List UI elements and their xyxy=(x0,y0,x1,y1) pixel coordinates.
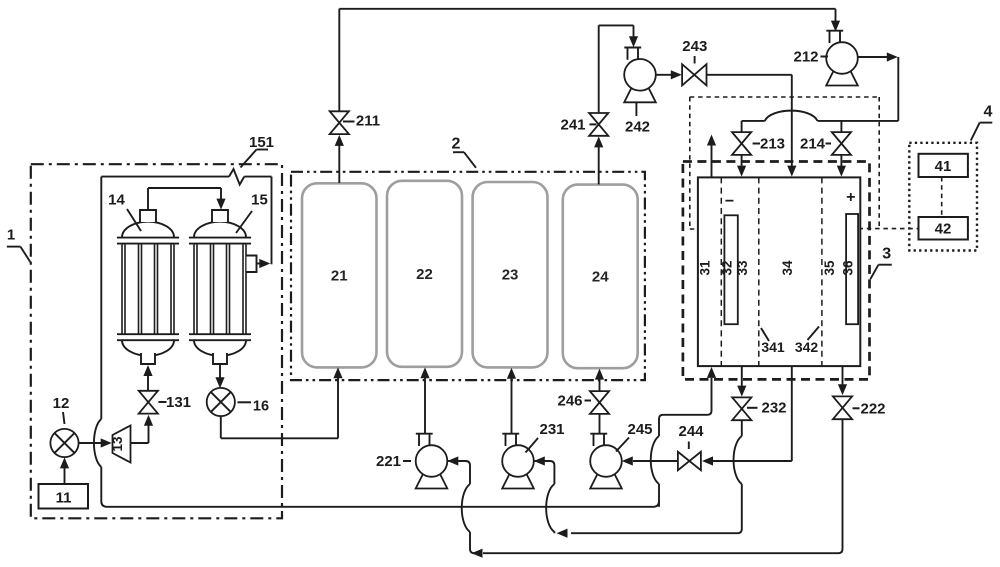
svg-text:−: − xyxy=(725,193,734,210)
svg-text:244: 244 xyxy=(678,423,704,440)
svg-text:42: 42 xyxy=(935,221,952,238)
svg-text:15: 15 xyxy=(251,192,268,209)
svg-text:222: 222 xyxy=(860,401,885,418)
svg-text:4: 4 xyxy=(984,104,993,121)
svg-text:214: 214 xyxy=(800,136,826,153)
svg-text:24: 24 xyxy=(592,268,609,285)
svg-text:232: 232 xyxy=(761,400,786,417)
svg-text:212: 212 xyxy=(793,49,818,66)
svg-text:14: 14 xyxy=(108,192,125,209)
svg-text:22: 22 xyxy=(416,266,433,283)
svg-text:3: 3 xyxy=(882,245,891,262)
svg-text:242: 242 xyxy=(625,119,650,136)
svg-text:245: 245 xyxy=(627,421,652,438)
svg-text:31: 31 xyxy=(697,260,712,276)
svg-text:21: 21 xyxy=(331,267,348,284)
svg-text:341: 341 xyxy=(761,339,785,355)
svg-text:23: 23 xyxy=(502,267,519,284)
svg-text:33: 33 xyxy=(735,260,750,276)
svg-text:231: 231 xyxy=(539,421,564,438)
svg-text:246: 246 xyxy=(557,393,582,410)
svg-text:221: 221 xyxy=(376,453,401,470)
svg-text:41: 41 xyxy=(935,158,952,175)
svg-text:36: 36 xyxy=(840,260,855,276)
svg-text:342: 342 xyxy=(795,339,819,355)
svg-text:+: + xyxy=(846,189,855,206)
svg-text:211: 211 xyxy=(356,113,380,130)
svg-text:151: 151 xyxy=(249,134,274,151)
svg-text:32: 32 xyxy=(720,260,735,275)
svg-text:243: 243 xyxy=(682,38,707,55)
svg-text:16: 16 xyxy=(253,399,269,415)
svg-text:35: 35 xyxy=(822,260,837,276)
svg-text:11: 11 xyxy=(56,490,72,507)
svg-text:213: 213 xyxy=(760,136,785,153)
svg-text:12: 12 xyxy=(53,395,70,412)
svg-text:2: 2 xyxy=(452,136,461,153)
svg-text:131: 131 xyxy=(166,394,191,411)
svg-text:13: 13 xyxy=(110,436,125,452)
svg-text:1: 1 xyxy=(7,227,15,244)
svg-text:241: 241 xyxy=(560,117,585,134)
svg-text:34: 34 xyxy=(780,260,795,276)
